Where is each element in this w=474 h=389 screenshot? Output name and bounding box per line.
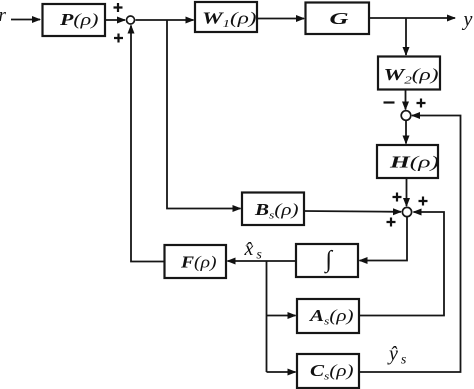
- svg-text:As(ρ): As(ρ): [309, 306, 354, 328]
- svg-text:Cs(ρ): Cs(ρ): [310, 361, 354, 383]
- svg-text:H(ρ): H(ρ): [389, 153, 440, 172]
- svg-text:P(ρ): P(ρ): [59, 10, 99, 29]
- svg-text:G: G: [330, 9, 350, 28]
- svg-text:∫: ∫: [324, 247, 334, 274]
- svg-text:W2(ρ): W2(ρ): [384, 65, 439, 87]
- svg-text:W1(ρ): W1(ρ): [202, 9, 257, 31]
- svg-text:y: y: [462, 9, 473, 31]
- svg-text:F(ρ): F(ρ): [180, 253, 217, 272]
- svg-text:r: r: [0, 5, 7, 26]
- svg-text:Bs(ρ): Bs(ρ): [254, 200, 299, 222]
